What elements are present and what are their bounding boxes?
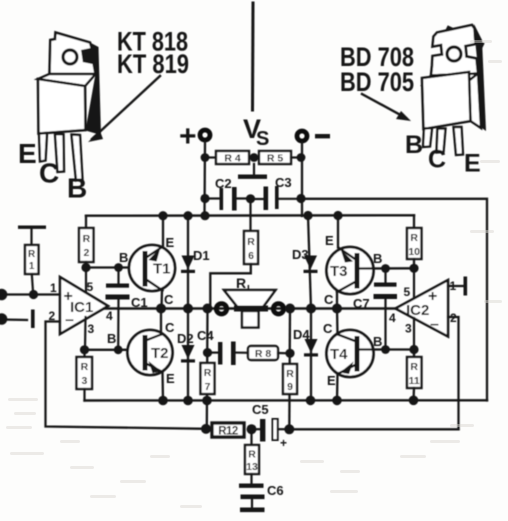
diode D2 [177, 309, 195, 401]
node junction C1 bottom on T2 base line [114, 345, 123, 354]
node output T3/T4 collectors [332, 304, 342, 314]
node junction R4/R5 midpoint [250, 153, 259, 162]
terminal input 2 [0, 313, 7, 325]
svg-text:R: R [28, 249, 36, 260]
wire R6 to left output node [210, 264, 251, 309]
svg-text:T1: T1 [153, 261, 171, 278]
node output left / R7 column [203, 304, 213, 314]
svg-text:7: 7 [205, 381, 211, 393]
svg-text:E: E [464, 150, 481, 178]
capacitor C5 [252, 402, 290, 450]
ground below C6 [240, 508, 265, 513]
svg-text:B: B [67, 173, 87, 204]
node junction C7 top [381, 264, 390, 273]
node bottom rail / T4 emitter [332, 396, 342, 406]
svg-text:C6: C6 [267, 483, 284, 498]
resistor R5 [259, 151, 301, 165]
node junction C4 [203, 348, 212, 357]
transistor T2 [107, 320, 175, 386]
svg-text:R12: R12 [218, 426, 238, 438]
svg-text:S: S [256, 128, 269, 150]
wire T4 collector to output [336, 309, 339, 335]
loudspeaker RL [224, 275, 276, 328]
svg-text:+: + [179, 120, 197, 153]
wire input 2 stub with end bar [2, 310, 35, 329]
svg-text:C4: C4 [197, 328, 214, 343]
transistor T3 [324, 233, 382, 307]
node output D3/D4 [306, 304, 316, 314]
node bottom rail / R7 [202, 396, 212, 406]
wire IC2 pin3 stub [413, 318, 415, 350]
svg-text:E: E [166, 235, 175, 250]
wire annotation arrow KT to package [88, 76, 160, 142]
svg-text:D2: D2 [177, 331, 194, 346]
node junction - / R5 [297, 153, 306, 162]
svg-text:E: E [325, 233, 334, 248]
svg-text:IC1: IC1 [70, 299, 93, 316]
svg-text:5: 5 [87, 280, 94, 294]
diode D1 [181, 216, 210, 309]
wire T4 emitter to bottom rail [336, 373, 339, 401]
node output D1/D2 [183, 304, 193, 314]
resistor R13 [245, 429, 259, 484]
resistor R8 [248, 346, 290, 360]
svg-text:4: 4 [106, 309, 113, 323]
terminal speaker left [216, 304, 226, 314]
svg-text:BD 705: BD 705 [340, 67, 414, 97]
svg-text:C: C [39, 158, 59, 189]
svg-text:C2: C2 [215, 176, 232, 191]
svg-text:+: + [428, 288, 437, 305]
node Vs label [243, 114, 269, 150]
wire T2 emitter to bottom rail [161, 372, 164, 401]
svg-text:R: R [247, 236, 255, 248]
svg-text:3: 3 [88, 322, 95, 336]
diode D3 [292, 216, 318, 309]
resistor R10 [407, 215, 422, 268]
wire T3 base line [360, 267, 414, 270]
node junction C2/C3 midpoint [246, 194, 255, 203]
node bottom rail / D2 [183, 396, 193, 406]
wire supply drop from top [251, 3, 255, 110]
svg-text:5: 5 [404, 285, 411, 299]
wire top rail [86, 214, 414, 217]
node junction C2 left [200, 194, 209, 203]
resistor R4 [205, 151, 249, 165]
terminal input 1 [0, 289, 7, 301]
svg-text:C5: C5 [252, 402, 269, 417]
svg-text:+: + [280, 436, 287, 450]
svg-text:C7: C7 [353, 296, 370, 311]
wire R9 column (output to C5 junction) [288, 309, 291, 430]
op-amp IC2 [389, 279, 457, 337]
node junction R10 / IC2 pin5 [409, 264, 418, 273]
svg-text:R 8: R 8 [255, 348, 272, 360]
capacitor C1 [106, 268, 148, 350]
svg-text:T2: T2 [151, 345, 169, 362]
svg-text:KT 819: KT 819 [117, 49, 189, 79]
wire T4 base line [360, 348, 414, 350]
svg-text:B: B [119, 250, 128, 265]
svg-text:B: B [373, 334, 382, 349]
transistor package BD708/BD705 (TO-220 right) [422, 24, 486, 155]
wire + feed vertical [203, 142, 206, 217]
wire output line between IC1 and IC2 [104, 307, 396, 310]
svg-text:IC2: IC2 [406, 302, 429, 319]
svg-text:1: 1 [29, 261, 35, 272]
svg-text:13: 13 [246, 461, 258, 473]
capacitor C2 [209, 176, 250, 211]
node junction R8/R9 [285, 349, 294, 358]
svg-text:T4: T4 [330, 346, 348, 363]
capacitor C4 [197, 328, 248, 365]
wire IC1 pin3 stub [84, 317, 87, 350]
node rail/T1 emitter [158, 211, 167, 220]
node bottom rail / D4 [306, 396, 316, 406]
wire T3 emitter to rail [337, 216, 339, 248]
node junction input / R1 [29, 290, 38, 299]
resistor R1 [18, 226, 46, 295]
node bottom rail / T2 emitter [158, 396, 168, 406]
wire T2 base line [85, 349, 143, 351]
svg-text:D3: D3 [292, 247, 309, 262]
wire T1 collector to output [160, 290, 163, 309]
node junction C3 right / frame [296, 194, 305, 203]
svg-text:E: E [166, 371, 175, 386]
svg-text:B: B [107, 331, 116, 346]
wire feedback line right segment [289, 428, 458, 430]
svg-text:R: R [83, 233, 91, 245]
wire T1 emitter to rail [162, 216, 164, 247]
svg-text:3: 3 [405, 322, 412, 336]
diode D4 [293, 309, 318, 401]
node bottom rail / R11 [409, 396, 419, 406]
wire bottom rail [85, 399, 488, 402]
ground below R4/R5 [238, 164, 267, 179]
capacitor C3 [251, 175, 301, 210]
resistor R3 [77, 350, 93, 401]
svg-text:T3: T3 [330, 263, 348, 280]
op-amp IC1 [49, 277, 114, 336]
node junction + / R4 [201, 153, 210, 162]
svg-text:R: R [286, 368, 294, 380]
wire right frame from C3 to bottom rail [301, 199, 487, 401]
svg-text:D1: D1 [193, 248, 210, 263]
wire input to IC1 pin1 [2, 293, 60, 295]
svg-text:R: R [81, 361, 89, 373]
svg-text:–: – [430, 316, 439, 333]
svg-text:R: R [410, 361, 418, 373]
svg-text:C: C [428, 146, 446, 174]
node junction R11 / IC2 pin3 [409, 345, 418, 354]
svg-text:E: E [327, 373, 336, 388]
wire IC2 pin1 with end bar [448, 277, 467, 296]
svg-text:C: C [165, 320, 175, 335]
svg-text:R: R [204, 367, 212, 379]
svg-text:R: R [236, 275, 246, 291]
node junction R2 / T1 base / IC1 pin5 [81, 263, 90, 272]
resistor R12 [212, 423, 244, 438]
node rail/-feed D3 [303, 211, 312, 220]
terminal + (positive supply) [179, 120, 210, 153]
svg-text:9: 9 [287, 381, 293, 393]
resistor R9 [283, 364, 297, 394]
svg-text:C: C [324, 292, 334, 307]
svg-text:1: 1 [50, 281, 57, 295]
capacitor C6 [239, 483, 284, 508]
svg-text:E: E [18, 138, 37, 169]
wire IC2 pin2 to feedback line [448, 317, 459, 429]
svg-text:6: 6 [248, 250, 254, 262]
capacitor C7 [353, 269, 397, 350]
wire T3 collector to output [336, 292, 338, 309]
svg-text:B: B [373, 251, 382, 266]
transistor T1 [119, 235, 175, 307]
wire annotation arrow BD to package [362, 94, 411, 121]
svg-text:4: 4 [389, 311, 396, 325]
wire T1 base line [86, 266, 142, 268]
svg-text:R: R [410, 232, 418, 244]
terminal - (negative supply) [297, 131, 330, 141]
svg-text:R 4: R 4 [224, 153, 241, 165]
wire IC1 pin5 stub [85, 268, 87, 293]
node junction R3 / IC1 pin3 / T2 base [80, 345, 89, 354]
node rail/T3 emitter [333, 211, 342, 220]
svg-text:R: R [248, 449, 256, 461]
wire R7 column (output to feedback line) [206, 309, 209, 429]
svg-text:C: C [164, 292, 174, 307]
wire - feed vertical [301, 143, 303, 217]
transistor T4 [323, 321, 382, 388]
node junction C1 top on base line [114, 263, 123, 272]
wire IC1 pin2 to feedback frame [46, 322, 206, 429]
node rail/+feed [200, 211, 209, 220]
transistor package KT818/KT819 (TO-220 left) [38, 33, 101, 181]
svg-text:11: 11 [409, 375, 420, 387]
resistor R11 [407, 350, 422, 401]
svg-text:C: C [323, 321, 333, 336]
node output T1/T2 collectors [156, 304, 166, 314]
terminal speaker right [273, 304, 283, 314]
svg-text:B: B [405, 131, 423, 159]
node output R9 column [285, 304, 295, 314]
svg-text:10: 10 [408, 246, 420, 258]
wire IC2 pin5 stub [413, 268, 415, 297]
resistor R7 [201, 363, 215, 394]
resistor R2 [79, 216, 94, 268]
svg-text:R 5: R 5 [267, 153, 284, 165]
resistor R6 [244, 231, 258, 264]
node rail/D1 [183, 211, 192, 220]
wire T2 collector to output [160, 309, 162, 335]
node junction C5 / R9 column / feedback [284, 424, 294, 434]
svg-text:3: 3 [81, 375, 87, 387]
svg-text:2: 2 [83, 247, 89, 259]
node feedback / R12 left [201, 424, 211, 434]
svg-text:D4: D4 [293, 327, 310, 342]
node junction R12 / C5 / R13 [247, 424, 257, 434]
wire R6 feed from C2/C3 midpoint [249, 199, 251, 231]
node junction C7 bottom [381, 345, 390, 354]
